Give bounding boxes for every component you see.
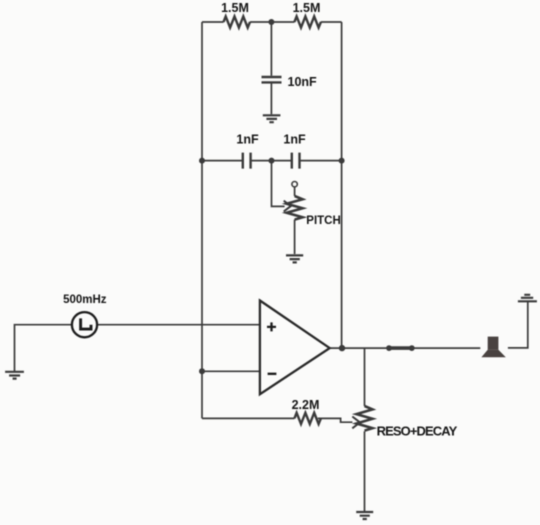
svg-text:10nF: 10nF bbox=[288, 75, 318, 89]
svg-text:1.5M: 1.5M bbox=[293, 1, 321, 15]
svg-text:1.5M: 1.5M bbox=[221, 1, 249, 15]
svg-text:1nF: 1nF bbox=[283, 133, 306, 147]
svg-text:RESO+DECAY: RESO+DECAY bbox=[377, 424, 458, 439]
svg-text:1nF: 1nF bbox=[236, 133, 259, 147]
svg-text:PITCH: PITCH bbox=[306, 215, 341, 227]
svg-text:500mHz: 500mHz bbox=[63, 294, 107, 306]
svg-text:2.2M: 2.2M bbox=[292, 398, 320, 412]
